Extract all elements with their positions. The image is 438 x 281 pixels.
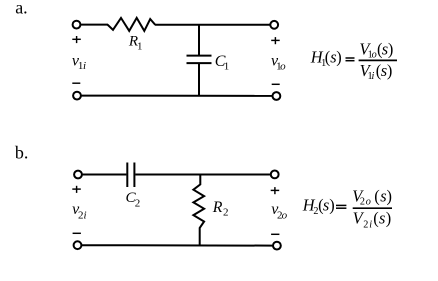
- svg-text:2: 2: [360, 197, 365, 208]
- svg-text:i: i: [369, 219, 372, 230]
- svg-text:R: R: [212, 199, 223, 216]
- svg-text:): ): [336, 48, 341, 67]
- svg-text:o: o: [366, 197, 371, 208]
- svg-text:2: 2: [135, 197, 141, 209]
- svg-text:o: o: [280, 61, 286, 73]
- svg-text:o: o: [282, 210, 288, 222]
- svg-text:): ): [387, 61, 392, 80]
- svg-text:): ): [386, 209, 391, 228]
- svg-text:a.: a.: [15, 0, 28, 18]
- svg-text:(: (: [373, 209, 378, 228]
- svg-text:i: i: [83, 60, 86, 72]
- svg-text:i: i: [84, 209, 87, 221]
- svg-text:): ): [387, 186, 392, 205]
- svg-text:2: 2: [363, 219, 368, 230]
- svg-text:i: i: [372, 71, 375, 82]
- svg-text:2: 2: [223, 207, 229, 219]
- svg-text:o: o: [372, 49, 377, 60]
- svg-text:b.: b.: [15, 143, 29, 163]
- svg-text:): ): [388, 40, 393, 59]
- svg-text:1: 1: [137, 40, 143, 52]
- svg-text:s: s: [379, 209, 385, 228]
- svg-text:1: 1: [224, 61, 230, 73]
- svg-text:(: (: [374, 186, 379, 205]
- svg-text:): ): [329, 196, 334, 215]
